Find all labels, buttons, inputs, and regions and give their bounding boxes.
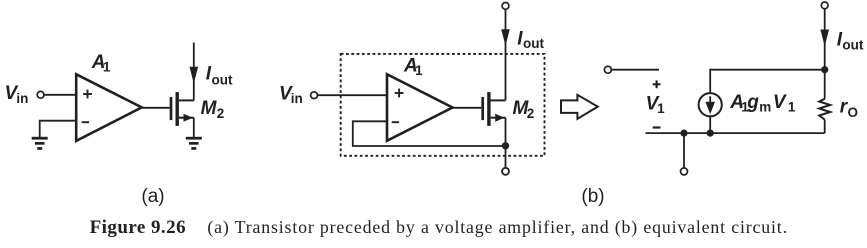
input terminal (a) [37,91,44,98]
drain wire up to output terminal (b) [505,9,507,100]
label Vin (b) [279,83,303,106]
svg-text:in: in [291,91,303,106]
source wire down (b) [505,118,507,168]
plus port wire [612,69,660,71]
svg-text:O: O [848,105,859,120]
label Iout right [837,30,864,53]
svg-text:Figure 9.26: Figure 9.26 [90,217,186,238]
wire Vin to op-amp + (b) [318,94,387,96]
current source top lead [710,70,825,93]
svg-text:in: in [16,91,28,106]
Iout arrow (b) [501,29,510,45]
op-amp minus sign (b) [392,121,399,123]
svg-text:1: 1 [657,101,665,116]
dashed box (b) [341,54,545,156]
label Iout (b) [517,28,544,51]
plus terminal [604,66,611,73]
label rO [840,96,858,120]
node dot output [821,66,828,73]
dependent current source A1gmV1 [699,93,722,116]
feedback wire minus input to source node (b) [353,121,506,146]
output rail down [824,9,826,70]
label M2 (a) [201,98,225,121]
bottom terminal (b) [502,168,509,175]
bottom rail [646,132,825,134]
op-amp A1 triangle (b) [387,74,453,141]
svg-text:out: out [842,38,863,53]
svg-text:out: out [212,73,233,88]
ground at M2 source (a) [186,137,202,150]
Iout arrow (a) [190,67,199,84]
label A1 (b) [403,55,423,78]
junction dot source/feedback (b) [502,142,509,149]
svg-text:g: g [746,92,759,113]
op-amp plus sign (b) [395,89,404,98]
op-amp plus sign (a) [83,90,92,99]
svg-text:M: M [201,98,218,119]
svg-text:m: m [759,100,771,115]
transistor M2 (b) [483,92,506,126]
junction dot current source bottom [707,130,714,137]
source wire to ground (a) [193,118,195,138]
wire op-amp output to gate (a) [142,107,170,109]
block arrow [561,95,598,119]
port minus sign [653,126,661,128]
op-amp minus sign (a) [82,121,89,123]
bottom terminal [681,168,688,175]
input terminal (b) [311,92,318,99]
wire minus input to ground (a) [40,121,76,138]
label V1 [646,93,666,116]
label M2 (b) [513,98,535,121]
output terminal top right [821,2,828,9]
wire op-amp output to gate (b) [453,107,482,109]
svg-text:(b): (b) [581,186,604,207]
label Iout (a) [206,64,233,88]
svg-text:(a) Transistor preceded by a v: (a) Transistor preceded by a voltage amp… [207,217,788,238]
svg-text:2: 2 [217,106,225,121]
resistor rO [819,70,830,133]
drain wire up (a) [193,43,195,101]
wire Vin to op-amp + (a) [44,94,76,96]
svg-text:1: 1 [788,100,796,115]
port plus sign [653,80,661,88]
Iout arrow right [820,30,829,47]
svg-text:out: out [523,36,544,51]
svg-text:1: 1 [415,63,423,78]
output terminal top (b) [502,3,509,10]
label Vin (a) [5,83,29,106]
label A1 (a) [91,52,111,75]
svg-text:1: 1 [103,60,111,75]
ground at op-amp minus (a) [32,137,48,150]
junction dot bottom port [680,130,687,137]
wire to bottom terminal [683,133,685,168]
op-amp A1 triangle (a) [76,74,142,141]
current source bottom lead [709,116,711,133]
svg-text:V: V [773,92,787,113]
label A1gmV1 [729,92,796,115]
svg-text:2: 2 [527,106,535,121]
svg-text:(a): (a) [141,186,164,207]
transistor M2 (a) [171,92,194,126]
